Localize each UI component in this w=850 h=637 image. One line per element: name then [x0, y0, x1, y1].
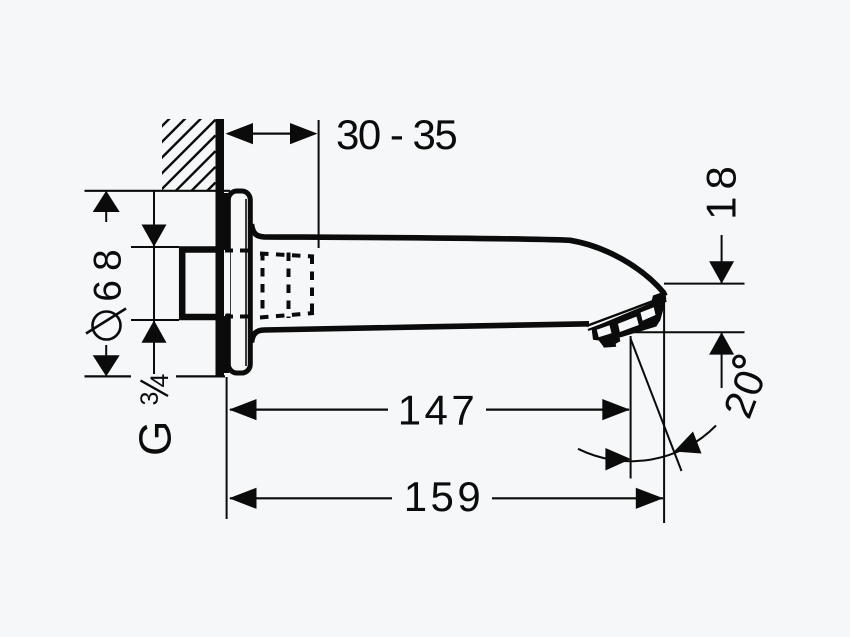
20 deg arc arrow at vertical line: [605, 448, 631, 471]
dim 30-35: line: [228, 133, 315, 135]
20 deg arc: [578, 426, 716, 462]
svg-text:147: 147: [398, 387, 479, 434]
svg-text:3: 3: [136, 392, 164, 406]
dim 159: right arrow: [636, 488, 664, 509]
dim O68: top arrow: [93, 191, 120, 212]
spout bottom edge: [252, 324, 590, 343]
aerator assembly at spout tip: [592, 292, 667, 341]
dim G3/4: upper arrow (down): [142, 225, 167, 247]
dim 18: top extension line: [664, 283, 745, 285]
dim 18: upper arrow (down): [709, 261, 734, 283]
dim O68: bottom arrow: [93, 355, 120, 376]
dim 18: dimension line: [721, 235, 723, 284]
dim 159: line segments: [230, 497, 392, 499]
dim 18: lower arrow (up): [709, 332, 734, 354]
escutcheon flange wall-side filler: [222, 193, 229, 250]
20 deg slant line: [631, 339, 682, 472]
aerator lower step: [599, 331, 621, 348]
dim 30-35: right arrow: [290, 123, 318, 144]
escutcheon flange face line: [245, 199, 247, 366]
spout-outlet extension line (147): [630, 336, 632, 479]
svg-text:68: 68: [87, 240, 130, 301]
wall line: [216, 119, 225, 377]
svg-text:159: 159: [404, 473, 485, 520]
svg-text:18: 18: [698, 159, 745, 220]
dim G3/4: dimension line: [153, 191, 155, 374]
tip face seam (double line): [587, 297, 666, 327]
hidden pipe lines (dashed) under flange: [225, 251, 248, 317]
svg-text:30 - 35: 30 - 35: [336, 111, 456, 158]
20 deg degree ring: [734, 356, 745, 367]
dim 159: left arrow: [229, 488, 257, 509]
dim G3/4: lower arrow (up): [142, 320, 167, 342]
dim 147: right arrow: [602, 399, 630, 420]
dim O68: bottom extension line: [85, 375, 132, 377]
hidden cartridge (dashed trapezoid): [260, 252, 314, 319]
dim 18: bottom extension line: [625, 331, 745, 333]
escutcheon flange: [228, 191, 250, 373]
dim O68: top extension line: [85, 190, 231, 192]
inlet pipe G3/4 nipple: [182, 250, 224, 318]
dim G3/4: extension ticks: [131, 246, 179, 248]
dim 147: line segments: [230, 409, 388, 411]
dim 30-35: left arrow: [226, 123, 254, 144]
tip extension line (159): [663, 296, 665, 523]
dim 147: left arrow: [229, 399, 257, 420]
dim O68: diameter symbol: [93, 312, 121, 340]
wall-face extension line: [226, 377, 228, 519]
20 deg arc arrow at slant line: [674, 432, 702, 454]
dim 30-35: extension line: [318, 120, 320, 248]
wall hatching: [136, 73, 216, 263]
svg-text:G: G: [130, 421, 181, 456]
dim G3/4: text: [130, 374, 181, 457]
spout body fill: [252, 224, 666, 343]
spout top edge: [252, 224, 666, 296]
